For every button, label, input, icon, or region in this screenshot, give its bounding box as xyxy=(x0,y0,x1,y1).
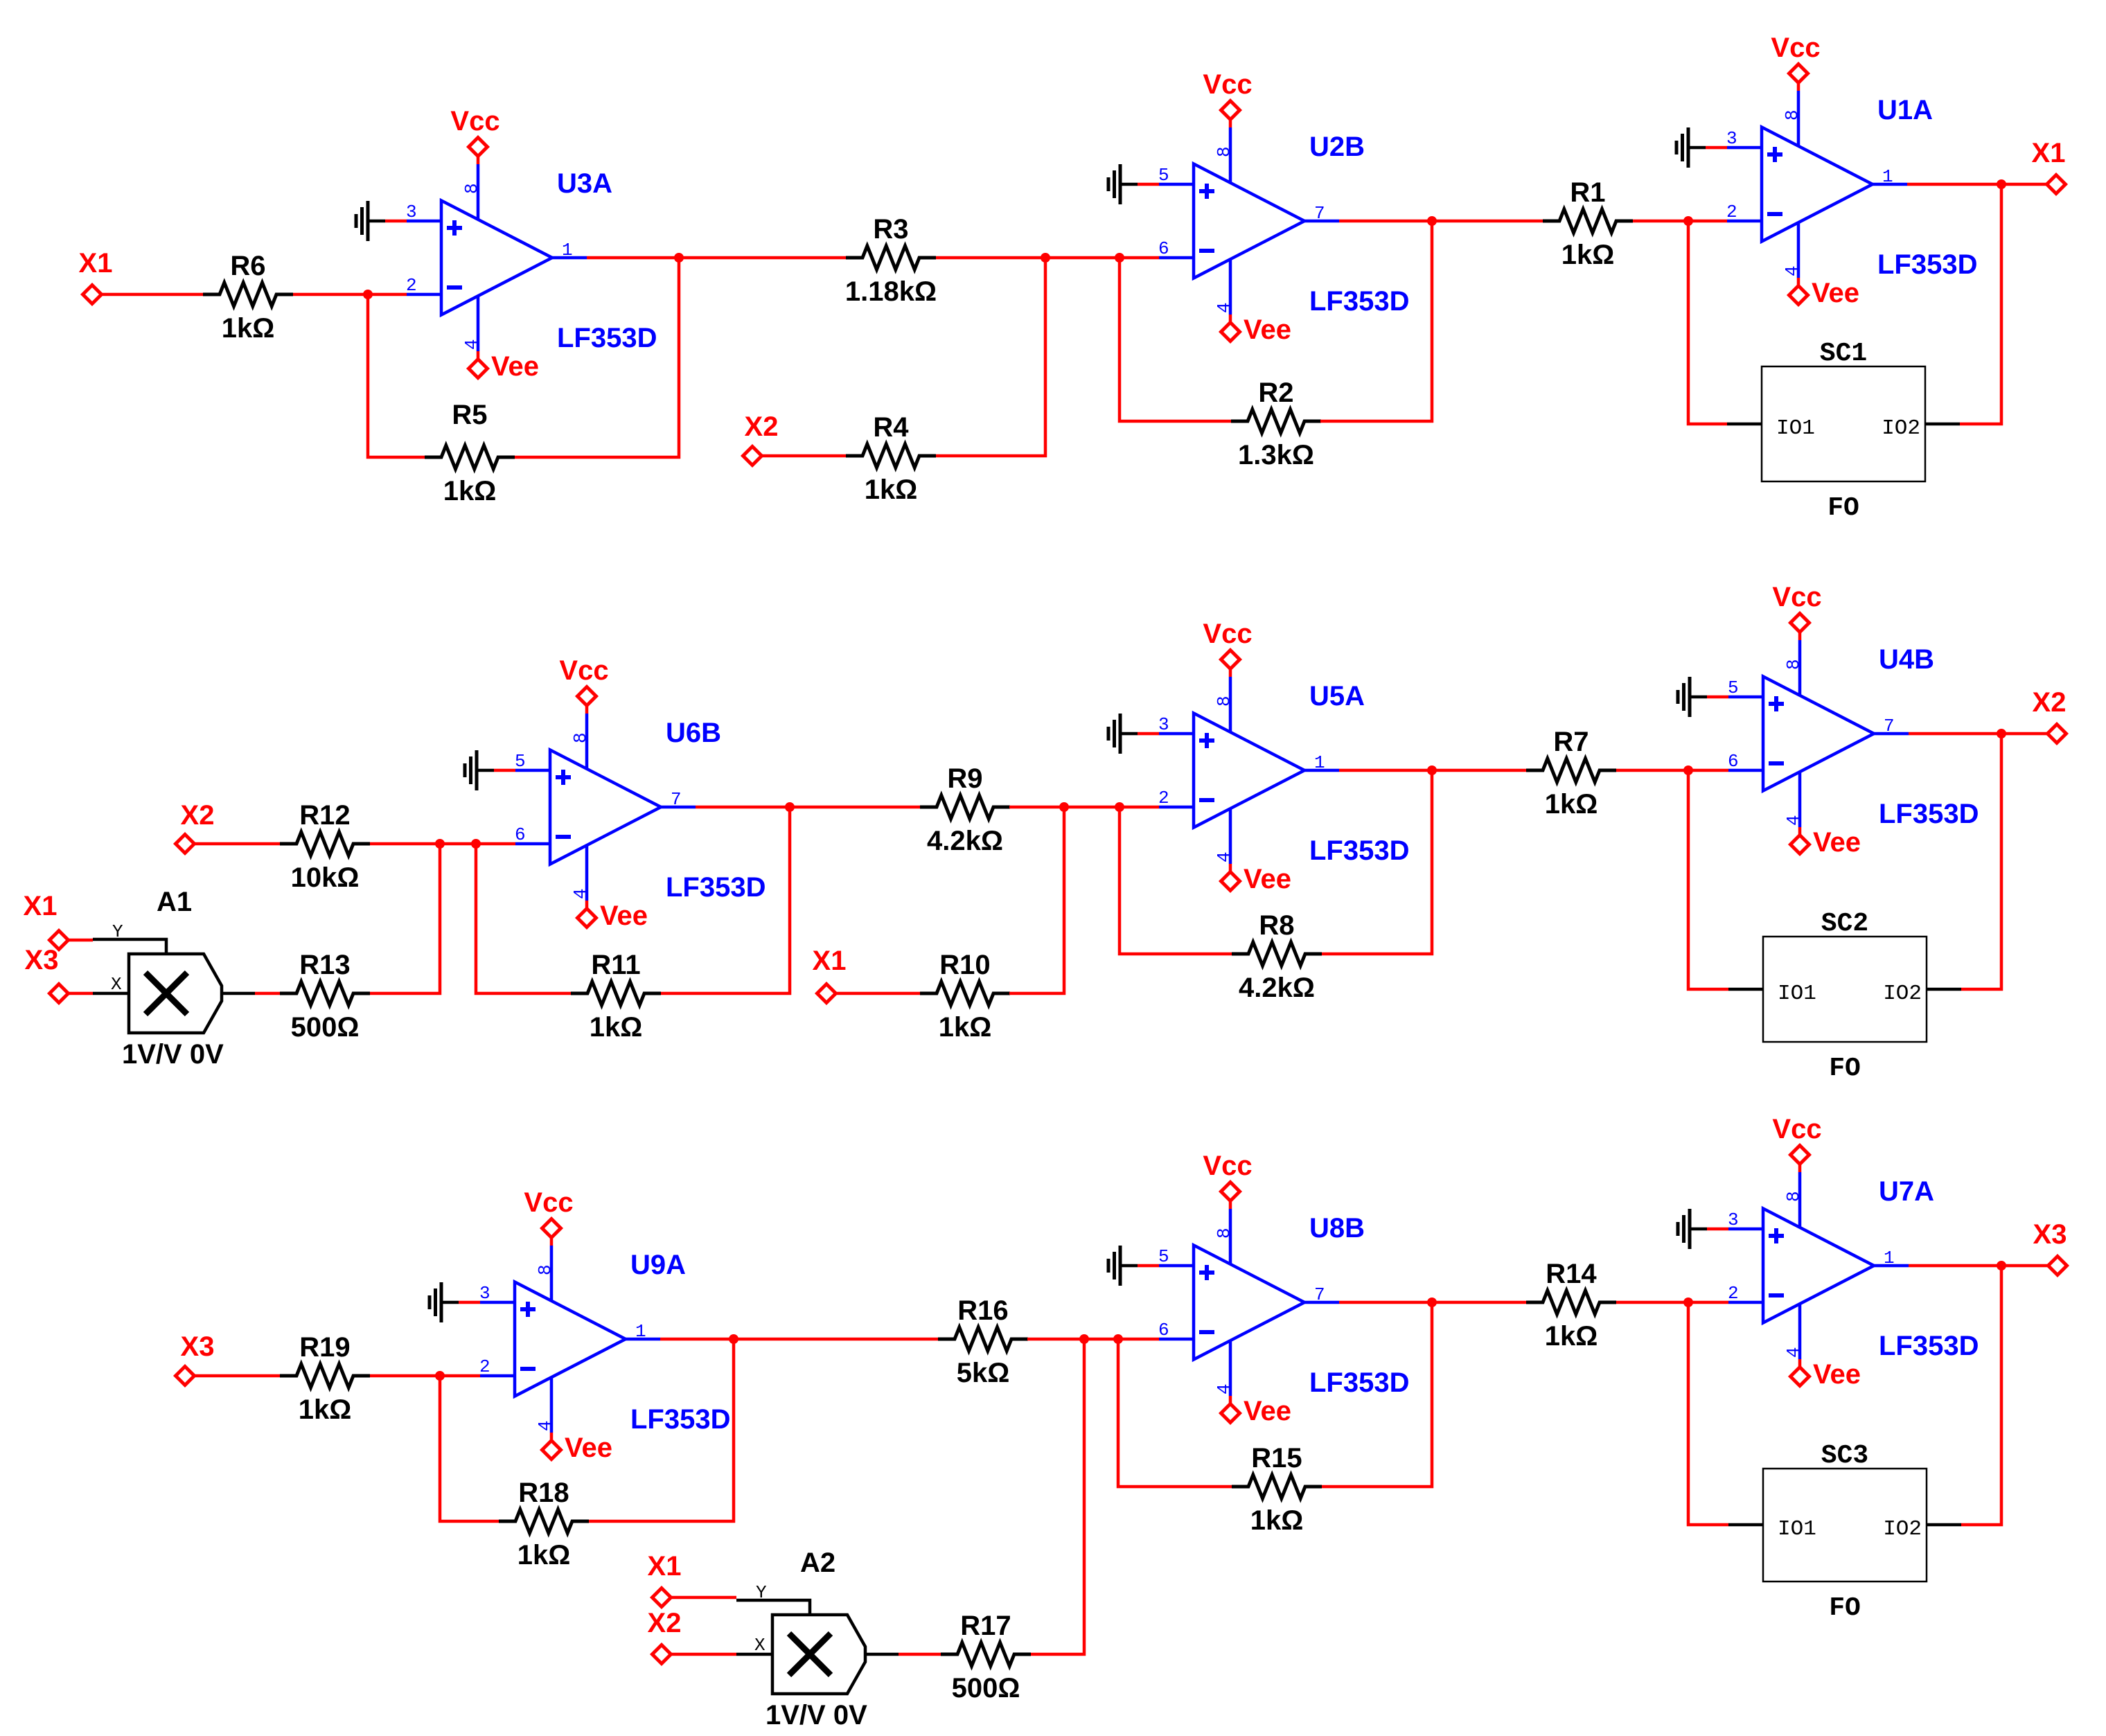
svg-text:LF353D: LF353D xyxy=(1879,1331,1979,1361)
resistor R3 1.18k&#937; xyxy=(845,214,937,307)
svg-text:X1: X1 xyxy=(2032,138,2066,168)
svg-text:A2: A2 xyxy=(800,1548,835,1578)
resistor R14 1k&#937; xyxy=(1526,1259,1616,1352)
svg-text:1kΩ: 1kΩ xyxy=(939,1012,992,1043)
svg-text:Vcc: Vcc xyxy=(1203,1151,1252,1181)
svg-text:2: 2 xyxy=(479,1356,490,1377)
svg-text:1kΩ: 1kΩ xyxy=(590,1012,643,1043)
wire R19 to U9A pin 2 xyxy=(370,1374,480,1378)
op-amp U6B (LF353D) xyxy=(515,718,766,903)
op-amp U9A (LF353D) xyxy=(479,1250,731,1435)
wire R15 right leg xyxy=(1322,1302,1432,1487)
svg-text:7: 7 xyxy=(1884,716,1895,736)
svg-text:R9: R9 xyxy=(947,763,982,794)
ground (pin 3) xyxy=(1676,127,1727,168)
svg-text:R11: R11 xyxy=(591,950,640,980)
svg-text:8: 8 xyxy=(570,732,591,743)
svg-text:8: 8 xyxy=(461,183,482,194)
svg-text:4: 4 xyxy=(1782,265,1803,276)
svg-text:6: 6 xyxy=(515,824,526,845)
svg-text:4: 4 xyxy=(461,339,482,350)
svg-text:U3A: U3A xyxy=(557,168,612,199)
svg-text:Vee: Vee xyxy=(1812,278,1859,308)
wire R8 right leg xyxy=(1322,770,1432,954)
svg-text:R12: R12 xyxy=(299,800,350,831)
op-amp U2B (LF353D) xyxy=(1158,132,1410,317)
svg-text:1: 1 xyxy=(562,240,573,260)
resistor R9 4.2k&#937; xyxy=(920,763,1010,856)
svg-text:2: 2 xyxy=(1158,788,1169,808)
svg-text:Vcc: Vcc xyxy=(450,106,499,136)
power Vcc (pin 8) xyxy=(524,1187,573,1301)
svg-text:2: 2 xyxy=(1726,202,1737,222)
svg-text:Y: Y xyxy=(756,1582,767,1603)
svg-text:Vcc: Vcc xyxy=(524,1187,573,1218)
resistor R12 10k&#937; xyxy=(280,800,370,893)
wire U5A out to R7 xyxy=(1339,769,1526,772)
resistor R8 4.2k&#937; xyxy=(1232,910,1322,1003)
power Vcc (pin 8) xyxy=(559,655,608,769)
svg-text:Vee: Vee xyxy=(1244,1396,1291,1426)
svg-text:LF353D: LF353D xyxy=(1309,286,1410,317)
resistor R4 1k&#937; xyxy=(846,412,936,505)
svg-text:500Ω: 500Ω xyxy=(952,1673,1020,1703)
wire R5 to output node xyxy=(515,258,679,457)
svg-text:U5A: U5A xyxy=(1309,681,1365,711)
svg-text:2: 2 xyxy=(1728,1283,1739,1304)
svg-text:10kΩ: 10kΩ xyxy=(291,862,360,893)
svg-text:8: 8 xyxy=(1214,146,1235,157)
svg-text:IO2: IO2 xyxy=(1883,1517,1922,1541)
wire U4B out to X2 xyxy=(1909,732,2048,736)
svg-text:U9A: U9A xyxy=(630,1250,686,1280)
wire U2B out to R1 xyxy=(1339,220,1543,223)
svg-text:1.18kΩ: 1.18kΩ xyxy=(845,276,937,307)
junction R2 node xyxy=(1115,253,1124,263)
svg-text:5: 5 xyxy=(515,751,526,772)
svg-text:4.2kΩ: 4.2kΩ xyxy=(1239,973,1315,1003)
wire R6 to U3A pin 2 xyxy=(293,293,407,296)
resistor R5 1k&#937; xyxy=(425,400,515,506)
svg-text:Vcc: Vcc xyxy=(559,655,608,686)
svg-text:3: 3 xyxy=(479,1283,490,1304)
op-amp U5A (LF353D) xyxy=(1158,681,1410,866)
svg-text:Vcc: Vcc xyxy=(1203,619,1252,649)
op-amp U8B (LF353D) xyxy=(1158,1213,1410,1398)
svg-text:Vee: Vee xyxy=(1813,827,1861,858)
svg-text:X2: X2 xyxy=(745,411,779,442)
resistor R10 1k&#937; xyxy=(920,950,1010,1043)
junction X2 output node xyxy=(1997,729,2006,738)
svg-text:LF353D: LF353D xyxy=(1309,1367,1410,1398)
svg-text:1: 1 xyxy=(1884,1248,1895,1268)
resistor R13 500&#937; xyxy=(280,950,370,1043)
wire U3A out to R3 xyxy=(587,256,846,260)
svg-text:Y: Y xyxy=(112,921,123,942)
svg-text:R7: R7 xyxy=(1553,727,1589,757)
ground (pin 5) xyxy=(1108,164,1159,204)
wire R9 to U5A pin 2 xyxy=(1009,806,1159,809)
wire SC3 IO2 to output node xyxy=(1961,1266,2001,1525)
svg-text:3: 3 xyxy=(1728,1210,1739,1230)
svg-text:4: 4 xyxy=(1214,302,1235,313)
power Vee (pin 4) xyxy=(461,296,539,382)
power Vcc (pin 8) xyxy=(450,106,499,220)
subcircuit SC3 (FO) xyxy=(1728,1441,1961,1623)
svg-text:R15: R15 xyxy=(1251,1443,1302,1473)
svg-text:U2B: U2B xyxy=(1309,132,1365,162)
resistor R6 1k&#937; xyxy=(203,251,293,344)
svg-text:R10: R10 xyxy=(939,950,990,980)
terminal X1 xyxy=(24,891,69,950)
wire R11 left leg xyxy=(476,844,571,993)
terminal X2 xyxy=(2033,687,2067,743)
svg-text:LF353D: LF353D xyxy=(1877,249,1978,280)
wire U1A out to X1 xyxy=(1907,183,2047,186)
svg-text:Vcc: Vcc xyxy=(1771,33,1820,63)
svg-text:6: 6 xyxy=(1158,238,1169,259)
terminal X2 xyxy=(176,800,215,853)
svg-text:SC3: SC3 xyxy=(1821,1441,1868,1471)
svg-text:1: 1 xyxy=(1314,752,1325,773)
terminal X1 xyxy=(2032,138,2066,194)
svg-text:Vee: Vee xyxy=(565,1433,612,1463)
resistor R11 1k&#937; xyxy=(571,950,661,1043)
svg-text:R4: R4 xyxy=(873,412,909,443)
wire U8B out to R14 xyxy=(1339,1301,1526,1304)
svg-text:500Ω: 500Ω xyxy=(291,1012,360,1043)
svg-text:1kΩ: 1kΩ xyxy=(222,313,275,344)
svg-text:Vee: Vee xyxy=(491,351,539,382)
svg-text:7: 7 xyxy=(1314,1284,1325,1305)
wire feedback to R18 xyxy=(440,1376,499,1521)
power Vcc (pin 8) xyxy=(1772,1114,1821,1228)
svg-text:FO: FO xyxy=(1829,1054,1861,1083)
terminal X2 xyxy=(648,1608,682,1664)
subcircuit SC1 (FO) xyxy=(1727,339,1960,523)
ground (pin 5) xyxy=(1678,677,1728,717)
junction X3 output node xyxy=(1997,1261,2006,1270)
svg-text:X2: X2 xyxy=(648,1608,682,1638)
subcircuit SC2 (FO) xyxy=(1728,909,1961,1083)
svg-text:X: X xyxy=(111,974,122,995)
svg-text:X1: X1 xyxy=(24,891,57,921)
power Vee (pin 4) xyxy=(570,845,648,931)
junction U2B output node xyxy=(1427,216,1437,226)
svg-text:1kΩ: 1kΩ xyxy=(865,475,918,505)
power Vee (pin 4) xyxy=(1214,808,1291,894)
terminal X3 xyxy=(176,1331,215,1385)
junction U6B output node xyxy=(785,802,795,812)
power Vcc (pin 8) xyxy=(1203,619,1252,732)
svg-text:4: 4 xyxy=(1214,1383,1235,1394)
wire R13 up to input node xyxy=(370,844,440,993)
svg-text:X3: X3 xyxy=(2033,1219,2067,1250)
wire R12 to U6B pin 6 xyxy=(370,842,515,846)
power Vee (pin 4) xyxy=(1214,259,1291,345)
svg-text:5: 5 xyxy=(1728,677,1739,698)
op-amp U4B (LF353D) xyxy=(1728,644,1979,829)
svg-text:X: X xyxy=(754,1635,766,1656)
svg-text:FO: FO xyxy=(1828,493,1859,523)
svg-text:4.2kΩ: 4.2kΩ xyxy=(927,826,1003,856)
svg-text:4: 4 xyxy=(570,888,591,899)
svg-text:X3: X3 xyxy=(25,945,59,975)
svg-text:8: 8 xyxy=(1783,659,1804,670)
svg-text:5: 5 xyxy=(1158,1246,1169,1267)
ground (pin 3) xyxy=(1108,714,1159,754)
svg-text:U8B: U8B xyxy=(1309,1213,1365,1243)
wire R3 to U2B pin 6 xyxy=(936,256,1159,260)
junction U4B input node xyxy=(1683,765,1693,775)
junction R10 node xyxy=(1059,802,1069,812)
svg-text:Vcc: Vcc xyxy=(1203,69,1252,100)
power Vee (pin 4) xyxy=(1214,1340,1291,1426)
svg-text:8: 8 xyxy=(535,1264,556,1275)
svg-text:5kΩ: 5kΩ xyxy=(957,1358,1010,1388)
wire X2 to R12 xyxy=(195,842,281,846)
svg-text:R17: R17 xyxy=(960,1611,1011,1641)
wire R10 up to input node xyxy=(1009,807,1064,993)
wire U6B out to R9 xyxy=(696,806,921,809)
svg-text:FO: FO xyxy=(1829,1593,1861,1623)
svg-text:U4B: U4B xyxy=(1879,644,1934,675)
svg-text:R19: R19 xyxy=(299,1332,350,1363)
power Vcc (pin 8) xyxy=(1203,69,1252,183)
resistor R17 500&#937; xyxy=(941,1611,1031,1703)
terminal X3 xyxy=(25,945,69,1003)
resistor R1 1k&#937; xyxy=(1543,177,1633,270)
svg-text:LF353D: LF353D xyxy=(1879,799,1979,829)
wire R1 to U1A pin 2 xyxy=(1633,220,1727,223)
svg-text:Vee: Vee xyxy=(1813,1359,1861,1390)
svg-text:4: 4 xyxy=(1783,1347,1804,1358)
terminal X1 xyxy=(813,946,847,1003)
op-amp U3A (LF353D) xyxy=(406,168,657,353)
wire U9A out to R16 xyxy=(660,1338,939,1341)
terminal X3 xyxy=(2033,1219,2067,1275)
wire feedback to R5 xyxy=(368,294,425,457)
svg-text:X1: X1 xyxy=(79,248,113,278)
wire R15 left leg xyxy=(1118,1339,1232,1487)
wire R18 to output node xyxy=(589,1339,734,1521)
wire X1 to A1 Y xyxy=(69,939,94,942)
svg-text:8: 8 xyxy=(1214,696,1235,707)
svg-text:IO1: IO1 xyxy=(1778,982,1816,1006)
resistor R16 5k&#937; xyxy=(938,1295,1028,1388)
op-amp U7A (LF353D) xyxy=(1728,1176,1979,1361)
wire R7 to U4B pin 6 xyxy=(1616,769,1728,772)
svg-text:Vcc: Vcc xyxy=(1772,582,1821,612)
svg-text:R8: R8 xyxy=(1259,910,1294,941)
wire R8 left leg xyxy=(1120,807,1232,954)
wire U4B input to SC2 IO1 xyxy=(1688,770,1728,989)
ground (pin 5) xyxy=(465,750,515,790)
svg-text:6: 6 xyxy=(1158,1320,1169,1340)
wire A1 out to R13 xyxy=(255,992,280,995)
svg-text:IO2: IO2 xyxy=(1882,416,1920,441)
svg-text:4: 4 xyxy=(1214,851,1235,862)
wire U7A out to X3 xyxy=(1909,1264,2049,1268)
svg-text:Vee: Vee xyxy=(1244,315,1291,345)
svg-text:X2: X2 xyxy=(2033,687,2067,718)
svg-text:3: 3 xyxy=(1726,128,1737,149)
wire U1A input to SC1 IO1 xyxy=(1688,221,1727,424)
junction R13 node xyxy=(435,839,445,849)
wire X1 to R6 xyxy=(102,293,204,296)
svg-text:1V/V 0V: 1V/V 0V xyxy=(122,1039,224,1070)
svg-text:1kΩ: 1kΩ xyxy=(517,1540,571,1570)
svg-text:X1: X1 xyxy=(648,1551,682,1582)
junction U9A output node xyxy=(729,1334,738,1344)
svg-text:1kΩ: 1kΩ xyxy=(299,1394,352,1425)
svg-text:SC2: SC2 xyxy=(1821,909,1868,939)
terminal X2 xyxy=(743,411,779,466)
svg-text:R5: R5 xyxy=(452,400,487,430)
junction U8B output node xyxy=(1427,1297,1437,1307)
resistor R2 1.3k&#937; xyxy=(1231,378,1321,470)
svg-text:Vee: Vee xyxy=(1244,864,1291,894)
junction U3A output node xyxy=(674,253,684,263)
svg-text:1kΩ: 1kΩ xyxy=(443,476,497,506)
resistor R7 1k&#937; xyxy=(1526,727,1616,820)
svg-text:6: 6 xyxy=(1728,751,1739,772)
wire A2 out to R17 xyxy=(899,1653,941,1656)
wire X3 to R19 xyxy=(195,1374,281,1378)
wire X3 to A1 X xyxy=(69,992,94,995)
power Vee (pin 4) xyxy=(535,1377,612,1463)
svg-text:R2: R2 xyxy=(1258,378,1293,408)
svg-text:4: 4 xyxy=(1783,815,1804,826)
svg-text:2: 2 xyxy=(406,275,417,296)
wire R16 to U8B pin 6 xyxy=(1027,1338,1159,1341)
svg-text:8: 8 xyxy=(1214,1228,1235,1239)
svg-text:1.3kΩ: 1.3kΩ xyxy=(1238,440,1314,470)
junction R11 node xyxy=(471,839,481,849)
svg-text:IO2: IO2 xyxy=(1883,982,1922,1006)
resistor R18 1k&#937; xyxy=(499,1478,589,1570)
svg-text:LF353D: LF353D xyxy=(557,323,657,353)
wire R14 to U7A pin 2 xyxy=(1616,1301,1728,1304)
wire R2 right leg xyxy=(1320,221,1432,421)
wire SC2 IO2 to output node xyxy=(1961,734,2001,989)
svg-text:R14: R14 xyxy=(1546,1259,1597,1289)
wire SC1 IO2 to output node xyxy=(1960,184,2001,424)
svg-text:Vee: Vee xyxy=(600,901,648,931)
power Vee (pin 4) xyxy=(1782,222,1859,308)
svg-text:1kΩ: 1kΩ xyxy=(1545,1321,1598,1352)
junction X1 output node xyxy=(1997,179,2006,189)
power Vcc (pin 8) xyxy=(1771,33,1820,146)
svg-text:4: 4 xyxy=(535,1420,556,1431)
svg-text:5: 5 xyxy=(1158,165,1169,186)
svg-text:SC1: SC1 xyxy=(1820,339,1867,369)
op-amp U1A (LF353D) xyxy=(1726,95,1978,280)
svg-text:R13: R13 xyxy=(299,950,350,980)
junction U7A input node xyxy=(1683,1297,1693,1307)
svg-text:1kΩ: 1kΩ xyxy=(1545,789,1598,820)
junction R4 node xyxy=(1041,253,1050,263)
junction U5A output node xyxy=(1427,765,1437,775)
svg-text:7: 7 xyxy=(671,789,682,810)
svg-text:U7A: U7A xyxy=(1879,1176,1934,1207)
svg-text:LF353D: LF353D xyxy=(630,1404,731,1435)
svg-text:U6B: U6B xyxy=(666,718,721,748)
svg-text:LF353D: LF353D xyxy=(1309,835,1410,866)
junction R15 node xyxy=(1113,1334,1123,1344)
ground (pin 3) xyxy=(1678,1209,1728,1249)
svg-text:3: 3 xyxy=(406,202,417,222)
svg-text:R18: R18 xyxy=(518,1478,569,1508)
svg-text:8: 8 xyxy=(1783,1191,1804,1202)
wire X2 to A2 X xyxy=(671,1653,737,1656)
svg-text:X2: X2 xyxy=(181,800,215,831)
ground (pin 5) xyxy=(1108,1246,1159,1286)
svg-text:A1: A1 xyxy=(157,887,192,917)
wire X2 to R4 xyxy=(762,454,847,458)
wire X1 to A2 Y xyxy=(671,1596,737,1600)
svg-text:R3: R3 xyxy=(873,214,908,245)
svg-text:1: 1 xyxy=(1882,166,1893,187)
svg-text:IO1: IO1 xyxy=(1776,416,1815,441)
svg-text:1kΩ: 1kΩ xyxy=(1250,1505,1304,1536)
junction R17 node xyxy=(1079,1334,1089,1344)
svg-text:X1: X1 xyxy=(813,946,847,976)
svg-text:3: 3 xyxy=(1158,714,1169,735)
multiplier A1 (1V/V 0V) xyxy=(93,887,255,1070)
svg-text:IO1: IO1 xyxy=(1778,1517,1816,1541)
junction R6/R5 node xyxy=(363,290,373,299)
svg-text:7: 7 xyxy=(1314,203,1325,224)
svg-text:U1A: U1A xyxy=(1877,95,1933,125)
resistor R15 1k&#937; xyxy=(1232,1443,1322,1536)
svg-text:X3: X3 xyxy=(181,1331,215,1362)
svg-text:Vcc: Vcc xyxy=(1772,1114,1821,1144)
power Vcc (pin 8) xyxy=(1772,582,1821,696)
svg-text:1: 1 xyxy=(635,1321,646,1342)
wire R2 left leg xyxy=(1120,258,1232,421)
power Vcc (pin 8) xyxy=(1203,1151,1252,1264)
junction R8 node xyxy=(1115,802,1124,812)
wire R4 up to input node xyxy=(936,258,1045,456)
svg-text:1kΩ: 1kΩ xyxy=(1561,240,1615,270)
svg-text:8: 8 xyxy=(1782,109,1803,121)
power Vee (pin 4) xyxy=(1783,772,1861,858)
svg-text:R16: R16 xyxy=(957,1295,1008,1326)
wire R17 up to input node xyxy=(1031,1339,1084,1654)
resistor R19 1k&#937; xyxy=(280,1332,370,1425)
terminal X1 xyxy=(79,248,113,304)
wire U7A input to SC3 IO1 xyxy=(1688,1302,1728,1525)
svg-text:R1: R1 xyxy=(1570,177,1605,208)
wire R11 right leg xyxy=(661,807,790,993)
ground (pin 3) xyxy=(356,201,407,241)
junction R18 node xyxy=(435,1371,445,1381)
svg-text:1V/V 0V: 1V/V 0V xyxy=(766,1700,867,1730)
ground (pin 3) xyxy=(430,1282,480,1322)
svg-text:R6: R6 xyxy=(230,251,265,281)
multiplier A2 (1V/V 0V) xyxy=(736,1548,899,1730)
wire X1 to R10 xyxy=(836,992,921,995)
svg-text:LF353D: LF353D xyxy=(666,872,766,903)
terminal X1 xyxy=(648,1551,682,1607)
junction U1A input node xyxy=(1683,216,1693,226)
power Vee (pin 4) xyxy=(1783,1304,1861,1390)
